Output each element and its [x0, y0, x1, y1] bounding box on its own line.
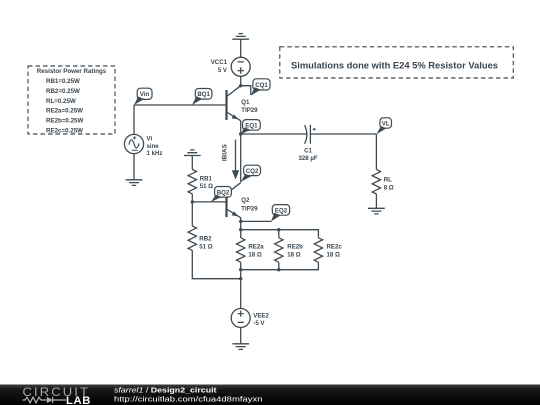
svg-text:TIP29: TIP29 — [241, 107, 258, 114]
svg-text:RE2a: RE2a — [248, 244, 264, 251]
svg-text:1 kHz: 1 kHz — [147, 150, 163, 157]
svg-text:IBIAS: IBIAS — [221, 143, 228, 161]
wire rail to VEE2 — [240, 270, 242, 309]
voltage source VCC1 — [231, 57, 250, 76]
junction RE rail left — [239, 228, 242, 231]
wire VEE2 to ground — [240, 328, 242, 344]
svg-text:RE2c: RE2c — [327, 244, 343, 251]
svg-text:RB2: RB2 — [199, 236, 212, 243]
ground (below RL) — [368, 208, 385, 214]
svg-text:CQ2: CQ2 — [246, 168, 259, 175]
svg-text:RE2b: RE2b — [287, 244, 303, 251]
label RE2a 18 ohm — [248, 244, 264, 259]
annotation box Resistor Power Ratings — [28, 66, 115, 135]
resistor RB2 — [188, 226, 196, 250]
wire RE top rail — [241, 230, 319, 238]
wire emitter stub to EQ2 — [241, 220, 272, 222]
svg-text:18 Ω: 18 Ω — [248, 252, 261, 259]
svg-text:sine: sine — [147, 143, 160, 150]
node flag VL — [376, 118, 391, 134]
wire EQ1 to Q2 collector — [240, 134, 242, 182]
svg-text:18 Ω: 18 Ω — [327, 252, 340, 259]
label Vi sine 1 kHz — [147, 136, 163, 157]
wire base Q1 — [134, 104, 227, 106]
resistor RE2c — [314, 238, 322, 262]
wire stub to CQ1 flag — [241, 86, 251, 95]
svg-text:RB2=0.25W: RB2=0.25W — [46, 88, 80, 95]
ground (above RB1) — [184, 150, 201, 156]
svg-text:328 µF: 328 µF — [298, 155, 317, 162]
svg-text:VEE2: VEE2 — [253, 312, 269, 319]
wire RE2b top drop — [278, 230, 280, 238]
label RL 8 ohm — [384, 177, 394, 192]
label RE2b 18 ohm — [287, 244, 303, 259]
svg-text:18 Ω: 18 Ω — [287, 252, 300, 259]
svg-text:EQ2: EQ2 — [275, 207, 288, 214]
label RB1 51 ohm — [200, 175, 213, 190]
transistor Q2 — [227, 183, 241, 222]
wire top ground to VCC1 — [240, 39, 242, 57]
svg-text:8 Ω: 8 Ω — [384, 184, 394, 191]
wire VCC1 to node CQ1 — [240, 76, 242, 85]
source Vi (sine) — [124, 134, 143, 153]
svg-text:BQ2: BQ2 — [217, 189, 230, 196]
wire junction to RB2 — [191, 202, 193, 226]
node flag CQ2 — [241, 165, 261, 182]
label VEE2 -5 V — [253, 312, 269, 327]
wire Vi to ground — [133, 153, 135, 179]
wire RE bottom rail — [241, 262, 319, 270]
svg-text:Vin: Vin — [140, 91, 150, 98]
ground (below VEE2) — [232, 344, 249, 350]
svg-text:Resistor Power Ratings: Resistor Power Ratings — [37, 68, 107, 75]
svg-text:LAB: LAB — [66, 395, 91, 405]
node flag Vin — [134, 88, 152, 105]
wire RE2b bottom drop — [278, 262, 280, 270]
node EQ2 junction — [239, 220, 242, 223]
transistor Q1 — [227, 86, 241, 134]
wire RB2 to bottom rail — [192, 250, 240, 278]
resistor RE2b — [275, 238, 283, 262]
label C1 328 uF — [298, 148, 317, 162]
svg-text:RE2a=0.25W: RE2a=0.25W — [46, 108, 83, 115]
junction RB1/RB2/base — [191, 200, 194, 203]
resistor RL — [372, 170, 380, 194]
ground (top, above VCC1) — [232, 34, 249, 58]
resistor RE2a — [237, 238, 245, 262]
svg-text:51 Ω: 51 Ω — [199, 243, 212, 250]
svg-text:5 V: 5 V — [218, 67, 228, 74]
svg-text:Simulations done with E24 5% R: Simulations done with E24 5% Resistor Va… — [291, 60, 498, 70]
CircuitLab logo squiggle (resistor + diode) — [23, 397, 67, 403]
svg-text:BQ1: BQ1 — [197, 91, 210, 98]
label RE2c 18 ohm — [327, 244, 343, 259]
svg-text:EQ1: EQ1 — [245, 122, 258, 129]
svg-text:C1: C1 — [304, 148, 312, 155]
svg-text:RB1=0.25W: RB1=0.25W — [46, 78, 80, 85]
footer bar — [0, 385, 540, 405]
junction RE2b bottom — [277, 268, 280, 271]
wire ground to RB1 — [191, 156, 193, 170]
svg-text:Q2: Q2 — [241, 197, 250, 204]
node flag BQ1 — [192, 89, 212, 106]
ground (below Vi) — [126, 180, 143, 186]
IBIAS current arrow — [232, 140, 239, 180]
svg-text:51 Ω: 51 Ω — [200, 183, 213, 190]
wire RL to ground — [375, 194, 377, 208]
wire emitter down to RE rail — [240, 221, 242, 237]
svg-text:RE2c=0.25W: RE2c=0.25W — [46, 128, 83, 135]
wire EQ1 to C1 — [241, 133, 307, 135]
wire RB1 to junction — [191, 194, 193, 202]
node flag EQ2 — [271, 205, 290, 222]
svg-text:http://circuitlab.com/cfua4d8m: http://circuitlab.com/cfua4d8mfayxn — [114, 394, 263, 403]
annotation box Simulations note — [280, 47, 514, 78]
svg-text:Q1: Q1 — [241, 99, 250, 106]
resistor RB1 — [188, 170, 196, 194]
svg-text:RB1: RB1 — [200, 175, 213, 182]
label VCC1 5 V — [211, 59, 228, 74]
label Q2 TIP29 — [241, 197, 258, 212]
junction RE2b top — [277, 228, 280, 231]
wire C1 to VL — [310, 133, 376, 135]
node flag CQ1 — [251, 79, 270, 96]
junction RE2a bottom — [239, 268, 242, 271]
svg-text:Vi: Vi — [147, 136, 153, 143]
node flag BQ2 — [211, 187, 232, 202]
svg-text:VCC1: VCC1 — [211, 59, 228, 66]
node flag EQ1 — [241, 120, 261, 135]
label RB2 51 ohm — [199, 236, 212, 251]
svg-text:RE2b=0.25W: RE2b=0.25W — [46, 118, 83, 125]
svg-text:RL: RL — [384, 177, 392, 184]
wire base Q2 — [192, 201, 226, 203]
svg-text:TIP29: TIP29 — [241, 205, 258, 212]
svg-text:CQ1: CQ1 — [255, 82, 268, 89]
capacitor C1 — [305, 125, 316, 144]
junction CQ1 node — [239, 84, 242, 87]
wire Vin to Vi source — [133, 105, 135, 135]
node EQ1 junction — [239, 132, 242, 135]
junction RB2 rail — [239, 277, 242, 280]
svg-text:-5 V: -5 V — [253, 320, 265, 327]
label Q1 TIP29 — [241, 99, 258, 114]
svg-text:sfarrel1 / Design2_circuit: sfarrel1 / Design2_circuit — [114, 385, 217, 394]
wire VL down to RL — [375, 134, 377, 170]
svg-text:VL: VL — [382, 121, 390, 128]
voltage source VEE2 — [231, 309, 250, 328]
svg-text:RL=0.25W: RL=0.25W — [46, 98, 76, 105]
